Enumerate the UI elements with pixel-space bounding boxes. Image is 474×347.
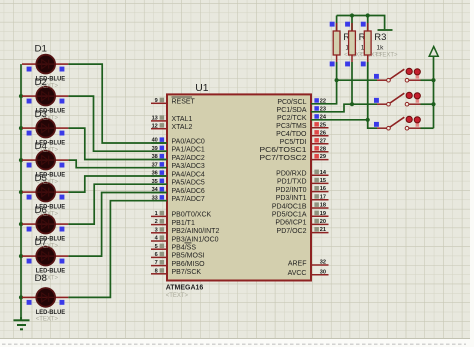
svg-text:8: 8 bbox=[155, 268, 158, 274]
node junction rail / switch 2 bbox=[431, 102, 435, 106]
svg-text:37: 37 bbox=[152, 162, 158, 168]
pin 14 (PD0/RXD) of U1, right side bbox=[276, 170, 328, 178]
svg-text:17: 17 bbox=[320, 194, 326, 200]
pin 9 (RESET) of U1, left side bbox=[151, 97, 196, 106]
pin 19 (PD5/OC1A) of U1, right side bbox=[272, 211, 329, 219]
wire LED D7 to pin PA6 bbox=[68, 193, 167, 257]
svg-text:5: 5 bbox=[155, 244, 158, 250]
svg-text:PA0/ADC0: PA0/ADC0 bbox=[172, 138, 205, 145]
wire R3 / pin 24 / switch 3 net bbox=[311, 119, 368, 121]
svg-text:PD1/TXD: PD1/TXD bbox=[277, 179, 307, 186]
pin 27 (PC5/TDI) of U1, right side bbox=[280, 138, 329, 146]
svg-text:PA2/ADC2: PA2/ADC2 bbox=[172, 155, 205, 162]
junction on ground bus at LED D3 row bbox=[19, 126, 23, 130]
svg-text:33: 33 bbox=[152, 195, 158, 201]
pin 36 (PA4/ADC4) of U1, left side bbox=[151, 170, 205, 178]
pin 23 (PC1/SDA) of U1, right side bbox=[277, 106, 329, 114]
junction on ground bus at LED D6 row bbox=[19, 222, 23, 226]
svg-text:14: 14 bbox=[320, 170, 327, 176]
svg-text:12: 12 bbox=[152, 123, 158, 129]
LED D6 (LED-BLUE) bbox=[22, 215, 68, 234]
switch SW3 (interactive SPST) bbox=[374, 116, 421, 130]
LED D4 (LED-BLUE) bbox=[22, 151, 68, 170]
svg-text:38: 38 bbox=[152, 154, 158, 160]
pin 28 (PC6/TOSC1) of U1, right side bbox=[260, 146, 329, 154]
node junction R1 bottom / switch 1 branch bbox=[335, 78, 339, 82]
wire switch 2 output to rail bbox=[421, 103, 434, 105]
svg-text:9: 9 bbox=[155, 98, 158, 104]
pin 25 (PC3/TMS) of U1, right side bbox=[276, 122, 328, 130]
switch SW1 (interactive SPST) bbox=[374, 68, 421, 82]
junction on ground bus at LED D2 row bbox=[19, 94, 23, 98]
svg-text:D6: D6 bbox=[35, 205, 48, 215]
svg-text:<TEXT>: <TEXT> bbox=[166, 293, 189, 299]
svg-text:RESET: RESET bbox=[172, 99, 196, 106]
switch SW2 (interactive SPST) bbox=[374, 92, 421, 106]
pin 21 (PD7/OC2) of U1, right side bbox=[277, 227, 329, 235]
svg-text:32: 32 bbox=[320, 260, 326, 266]
svg-text:D8: D8 bbox=[35, 273, 48, 283]
svg-text:PA4/ADC4: PA4/ADC4 bbox=[172, 171, 205, 178]
resistor R1 body and pins bbox=[330, 16, 340, 67]
svg-text:7: 7 bbox=[155, 260, 158, 266]
svg-text:20: 20 bbox=[320, 219, 326, 225]
svg-text:XTAL2: XTAL2 bbox=[172, 124, 193, 131]
node junction rail / switch 1 bbox=[431, 78, 435, 82]
svg-text:PA6/ADC6: PA6/ADC6 bbox=[172, 188, 205, 195]
node junction R2 bottom / pin 23 wire bbox=[350, 102, 354, 106]
svg-text:15: 15 bbox=[320, 178, 326, 184]
svg-text:19: 19 bbox=[320, 211, 326, 217]
svg-text:PD0/RXD: PD0/RXD bbox=[276, 171, 306, 178]
svg-text:PA3/ADC3: PA3/ADC3 bbox=[172, 163, 205, 170]
pin 32 (AREF) of U1, right side bbox=[288, 260, 329, 268]
pin 20 (PD6/ICP1) of U1, right side bbox=[275, 219, 328, 227]
svg-text:35: 35 bbox=[152, 179, 158, 185]
svg-text:39: 39 bbox=[152, 146, 158, 152]
svg-text:PC0/SCL: PC0/SCL bbox=[277, 99, 306, 106]
pin 3 (PB2/AIN0/INT2) of U1, left side bbox=[151, 227, 219, 235]
svg-text:PC5/TDI: PC5/TDI bbox=[280, 139, 307, 146]
svg-text:6: 6 bbox=[155, 252, 158, 258]
wire R2 / pin 23 / switch 2 net bbox=[311, 104, 377, 112]
svg-text:PD7/OC2: PD7/OC2 bbox=[277, 228, 307, 235]
svg-text:<TEXT>: <TEXT> bbox=[375, 53, 398, 59]
wire LED D2 to pin PA1 bbox=[68, 96, 167, 151]
LED D7 (LED-BLUE) bbox=[22, 247, 68, 266]
wire LED D8 to pin PA7 bbox=[68, 201, 167, 298]
svg-text:PA7/ADC7: PA7/ADC7 bbox=[172, 196, 205, 203]
wire LED D4 to pin PA3 bbox=[68, 160, 167, 168]
LED D8 (LED-BLUE) bbox=[22, 288, 68, 307]
svg-text:AVCC: AVCC bbox=[288, 270, 307, 277]
svg-text:PC3/TMS: PC3/TMS bbox=[276, 123, 307, 130]
svg-text:PB3/AIN1/OC0: PB3/AIN1/OC0 bbox=[172, 236, 219, 243]
pin 24 (PC2/TCK) of U1, right side bbox=[277, 114, 329, 122]
junction on ground bus at LED D8 row bbox=[19, 295, 23, 299]
svg-text:D7: D7 bbox=[35, 237, 48, 247]
svg-text:XTAL1: XTAL1 bbox=[172, 116, 193, 123]
svg-text:18: 18 bbox=[320, 203, 326, 209]
pin 26 (PC4/TDO) of U1, right side bbox=[276, 130, 328, 138]
pin 34 (PA6/ADC6) of U1, left side bbox=[151, 187, 205, 195]
pin 7 (PB6/MISO) of U1, left side bbox=[151, 260, 205, 268]
power terminal T-bar bbox=[378, 29, 393, 31]
pin 12 (XTAL2) of U1, left side bbox=[151, 123, 192, 131]
pin 35 (PA5/ADC5) of U1, left side bbox=[151, 179, 205, 187]
svg-text:PD5/OC1A: PD5/OC1A bbox=[272, 212, 307, 219]
svg-text:34: 34 bbox=[152, 187, 159, 193]
svg-text:40: 40 bbox=[152, 138, 158, 144]
svg-text:PB7/SCK: PB7/SCK bbox=[172, 269, 202, 276]
svg-text:D5: D5 bbox=[35, 173, 48, 183]
pin 16 (PD2/INT0) of U1, right side bbox=[276, 186, 329, 194]
svg-text:PC1/SDA: PC1/SDA bbox=[277, 107, 307, 114]
svg-text:R3: R3 bbox=[374, 32, 386, 43]
resistor R3 body and pins bbox=[361, 16, 371, 67]
LED D5 (LED-BLUE) bbox=[22, 183, 68, 202]
svg-text:25: 25 bbox=[320, 122, 326, 128]
svg-text:1: 1 bbox=[155, 211, 158, 217]
svg-text:26: 26 bbox=[320, 130, 326, 136]
svg-text:<TEXT>: <TEXT> bbox=[36, 317, 59, 323]
pin 37 (PA3/ADC3) of U1, left side bbox=[151, 162, 205, 170]
svg-text:1k: 1k bbox=[377, 45, 385, 52]
svg-text:D1: D1 bbox=[35, 44, 48, 54]
node junction top wire / R3 bbox=[366, 13, 370, 17]
LED D2 (LED-BLUE) bbox=[22, 87, 68, 106]
pin 2 (PB1/T1) of U1, left side bbox=[151, 219, 195, 227]
pin 30 (AVCC) of U1, right side bbox=[288, 269, 329, 277]
svg-text:13: 13 bbox=[152, 116, 158, 122]
svg-text:3: 3 bbox=[155, 227, 158, 233]
pin 15 (PD1/TXD) of U1, right side bbox=[277, 178, 329, 186]
svg-text:PD3/INT1: PD3/INT1 bbox=[276, 195, 307, 202]
svg-text:LED-BLUE: LED-BLUE bbox=[36, 310, 65, 316]
svg-text:PB2/AIN0/INT2: PB2/AIN0/INT2 bbox=[172, 228, 220, 235]
svg-text:PC6/TOSC1: PC6/TOSC1 bbox=[260, 147, 307, 154]
pin 38 (PA2/ADC2) of U1, left side bbox=[151, 154, 205, 162]
svg-text:16: 16 bbox=[320, 186, 326, 192]
svg-text:27: 27 bbox=[320, 138, 326, 144]
svg-text:PC2/TCK: PC2/TCK bbox=[277, 115, 307, 122]
svg-text:PB5/MOSI: PB5/MOSI bbox=[172, 253, 205, 260]
svg-text:PB1/T1: PB1/T1 bbox=[172, 220, 195, 227]
pin 8 (PB7/SCK) of U1, left side bbox=[151, 268, 201, 276]
pin 6 (PB5/MOSI) of U1, left side bbox=[151, 252, 205, 260]
node junction R3 vertical / pin 24 wire bbox=[366, 118, 370, 122]
wire power rail vertical bbox=[433, 56, 435, 128]
wire LED D1 to pin PA0 bbox=[68, 64, 167, 143]
svg-text:PD2/INT0: PD2/INT0 bbox=[276, 187, 307, 194]
svg-text:PC4/TDO: PC4/TDO bbox=[276, 131, 307, 138]
power terminal arrow (VCC) bbox=[429, 47, 438, 57]
pin 1 (PB0/T0/XCK) of U1, left side bbox=[151, 211, 212, 219]
svg-text:D2: D2 bbox=[35, 77, 48, 87]
wire LED D3 to pin PA2 bbox=[68, 128, 167, 159]
wire LED D6 to pin PA5 bbox=[68, 184, 167, 224]
svg-text:29: 29 bbox=[320, 154, 326, 160]
microcontroller U1 ATMEGA16 body bbox=[167, 94, 311, 280]
svg-text:AREF: AREF bbox=[288, 260, 307, 267]
svg-text:PD4/OC1B: PD4/OC1B bbox=[272, 203, 307, 210]
svg-text:PA1/ADC1: PA1/ADC1 bbox=[172, 147, 205, 154]
LED D3 (LED-BLUE) bbox=[22, 119, 68, 138]
svg-text:30: 30 bbox=[320, 269, 326, 275]
junction on ground bus at LED D4 row bbox=[19, 158, 23, 162]
svg-text:PB4/SS: PB4/SS bbox=[172, 245, 197, 252]
svg-text:PA5/ADC5: PA5/ADC5 bbox=[172, 180, 205, 187]
wire switch 1 output to rail bbox=[421, 79, 434, 81]
svg-text:PB6/MISO: PB6/MISO bbox=[172, 261, 206, 268]
svg-text:PC7/TOSC2: PC7/TOSC2 bbox=[260, 155, 307, 162]
wire ground bus vertical bbox=[20, 64, 22, 317]
junction on ground bus at LED D5 row bbox=[19, 190, 23, 194]
pin 4 (PB3/AIN1/OC0) of U1, left side bbox=[151, 235, 219, 243]
pin 5 (PB4/SS) of U1, left side bbox=[151, 243, 196, 252]
pin 17 (PD3/INT1) of U1, right side bbox=[276, 194, 329, 202]
LED D1 (LED-BLUE) bbox=[22, 55, 68, 74]
wire switch 3 output to rail bbox=[421, 127, 434, 129]
svg-text:ATMEGA16: ATMEGA16 bbox=[166, 285, 204, 292]
pin 22 (PC0/SCL) of U1, right side bbox=[277, 98, 328, 106]
svg-text:21: 21 bbox=[320, 227, 326, 233]
pin 33 (PA7/ADC7) of U1, left side bbox=[151, 195, 205, 203]
pin 18 (PD4/OC1B) of U1, right side bbox=[272, 202, 329, 210]
svg-text:D3: D3 bbox=[35, 109, 48, 119]
resistor R2 body and pins bbox=[345, 16, 355, 67]
svg-text:PB0/T0/XCK: PB0/T0/XCK bbox=[172, 212, 212, 219]
wire R1 / pin 22 / switch 1 net bbox=[311, 62, 337, 104]
wire LED D5 to pin PA4 bbox=[68, 176, 167, 192]
wire resistor tops to power terminal bbox=[337, 16, 385, 30]
svg-text:U1: U1 bbox=[195, 83, 209, 94]
pin 39 (PA1/ADC1) of U1, left side bbox=[151, 146, 205, 154]
pin 13 (XTAL1) of U1, left side bbox=[151, 115, 192, 123]
pin 29 (PC7/TOSC2) of U1, right side bbox=[260, 154, 329, 162]
ground symbol bbox=[14, 317, 30, 329]
svg-text:36: 36 bbox=[152, 171, 158, 177]
node junction top wire / R2 bbox=[350, 13, 354, 17]
svg-text:28: 28 bbox=[320, 146, 326, 152]
svg-text:2: 2 bbox=[155, 219, 158, 225]
svg-text:D4: D4 bbox=[35, 141, 48, 151]
svg-text:PD6/ICP1: PD6/ICP1 bbox=[275, 220, 306, 227]
junction on ground bus at LED D7 row bbox=[19, 254, 23, 258]
pin 40 (PA0/ADC0) of U1, left side bbox=[151, 137, 205, 145]
